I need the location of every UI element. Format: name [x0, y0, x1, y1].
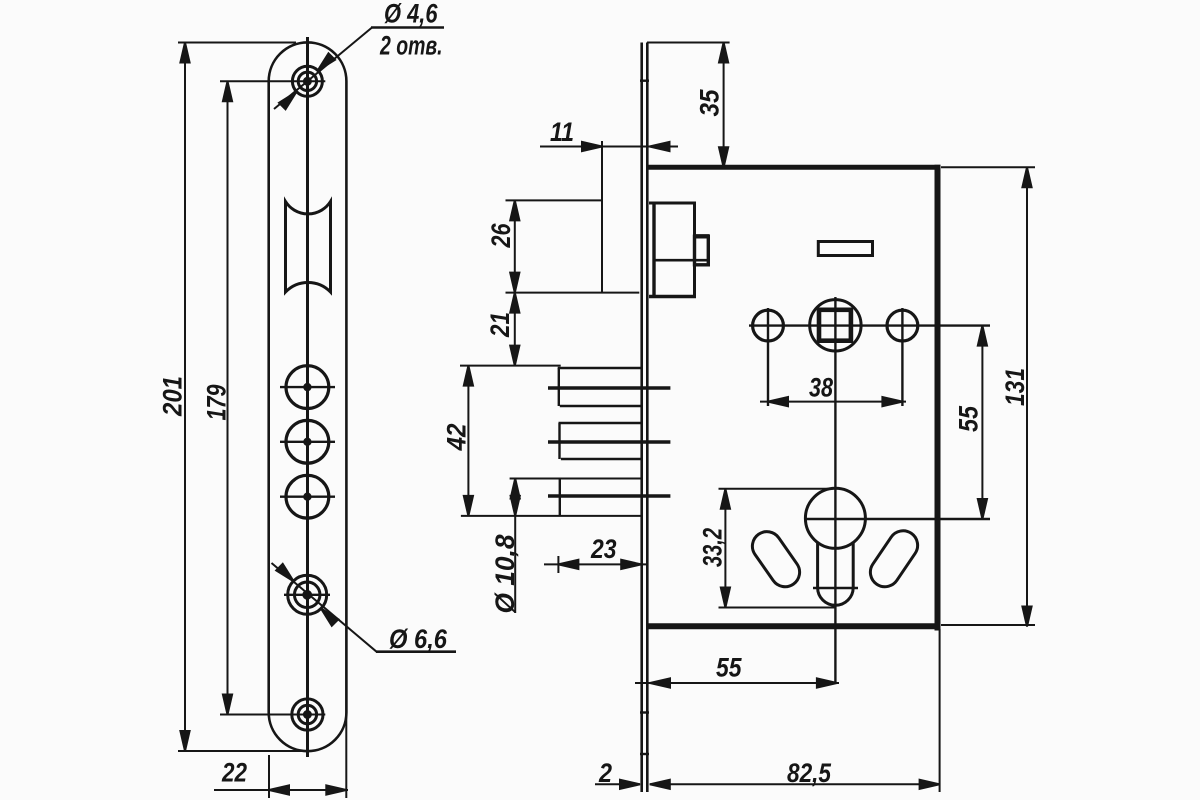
dimension 201 top extension [178, 42, 296, 44]
dimension 82.5 line [650, 783, 940, 785]
spring leaf cell 2 [559, 422, 641, 424]
plate hole 3 [286, 475, 329, 518]
dimension 179 bottom extension / hole crosshair [220, 714, 325, 716]
dimension 22 line [214, 789, 348, 791]
keyhole channel tick [813, 587, 858, 590]
dimension 55 bottom line [635, 682, 839, 684]
dimension 11 line [540, 146, 678, 148]
left fixing hole [753, 310, 784, 341]
dimension 22 left extension [268, 755, 270, 798]
dimension 201 line [184, 43, 186, 752]
spindle square [819, 310, 851, 341]
right hole vertical centerline [901, 308, 903, 406]
leader Ø6.6 [272, 563, 377, 652]
faceplate outline [269, 42, 347, 751]
case right edge [935, 165, 941, 631]
dimension 35 line [723, 43, 725, 168]
svg-text:23: 23 [590, 534, 616, 564]
leader Ø4.6 [274, 28, 372, 110]
svg-text:38: 38 [809, 373, 833, 403]
svg-text:131: 131 [1000, 368, 1030, 406]
dimension 23 extension [557, 556, 559, 573]
top screw hole (Ø4.6) [292, 66, 322, 96]
dimension 201 bottom extension [178, 750, 309, 752]
svg-text:Ø 10,8: Ø 10,8 [490, 535, 520, 614]
left oval slot [747, 526, 806, 592]
dimension 38 line [760, 401, 906, 403]
svg-text:82,5: 82,5 [787, 758, 832, 788]
svg-text:33,2: 33,2 [698, 528, 728, 567]
keyhole channel [818, 542, 854, 606]
strip tick bottom hole [640, 711, 649, 713]
dimension 131 top extension [941, 166, 1035, 168]
svg-text:55: 55 [716, 653, 742, 683]
right oval slot [865, 525, 923, 592]
svg-text:21: 21 [485, 312, 515, 338]
strip tick top hole [640, 79, 649, 81]
spring leaf cell 3 [559, 479, 561, 516]
case top edge [648, 165, 941, 170]
svg-text:26: 26 [486, 223, 516, 249]
hole Ø6.6 [288, 575, 327, 614]
dimension 10.8 line with leader [514, 479, 516, 614]
dimension 26/21 middle extension [506, 292, 640, 294]
spring leaf cell 1 [558, 367, 641, 369]
plate hole 1 [286, 366, 329, 409]
dimension 26-21 line [514, 200, 516, 365]
latch bolt head [695, 236, 709, 264]
latch cutout in faceplate [286, 202, 331, 293]
hole Ø6.6 crosshair [284, 594, 330, 596]
dimension 10.8 top extension [510, 478, 642, 480]
holes row centerline [749, 324, 990, 326]
dimension 35 extension top [647, 42, 730, 44]
svg-text:2: 2 [598, 758, 612, 788]
strip right line [646, 43, 649, 793]
plate hole 2 [286, 420, 329, 463]
faceplate centerline [306, 37, 309, 757]
spring leaf 2 [548, 440, 670, 443]
dimension 26 top extension [506, 199, 604, 201]
strip tick plate bottom [640, 753, 649, 755]
svg-text:Ø 6,6: Ø 6,6 [389, 624, 448, 654]
latch bolt bottom edge [649, 295, 696, 298]
dimension 131 line [1026, 167, 1028, 626]
slot rectangle [818, 242, 872, 256]
svg-text:201: 201 [158, 376, 188, 417]
latch bolt left edge [652, 203, 655, 297]
dimension 23 line [544, 563, 647, 565]
right fixing hole [887, 310, 918, 341]
svg-text:35: 35 [695, 89, 725, 117]
dimension 33.2 top extension [719, 488, 834, 490]
keyhole circle [805, 488, 865, 548]
dimension 55 right line [981, 326, 983, 519]
svg-text:42: 42 [442, 424, 472, 452]
case bottom edge [647, 623, 941, 629]
svg-text:11: 11 [550, 117, 574, 147]
svg-text:179: 179 [202, 385, 232, 421]
dimension 179 line [227, 81, 229, 714]
latch bolt head top thick edge [693, 234, 710, 238]
dimension 11 extension [601, 141, 603, 293]
plate hole 2 crosshair [280, 441, 335, 443]
strip left line [640, 43, 643, 793]
svg-text:Ø 4,6: Ø 4,6 [384, 0, 438, 29]
svg-text:55: 55 [954, 405, 984, 432]
dimension 33.2 bottom extension [719, 607, 837, 609]
left hole vertical centerline [767, 308, 769, 406]
dimension 42 bottom extension [461, 515, 641, 517]
dimension 22 right extension [345, 560, 347, 798]
latch bolt right edge [693, 203, 696, 297]
dimension 33.2 line [724, 489, 726, 608]
dimension 42/21 extension [460, 365, 561, 367]
svg-text:2 отв.: 2 отв. [379, 31, 442, 61]
dimension 179 top extension / hole crosshair [220, 80, 325, 82]
spring leaf 3 [548, 494, 670, 497]
spindle/keyhole vertical centerline [834, 297, 836, 683]
latch bolt parting line [654, 259, 707, 262]
dimension 42 line [467, 366, 469, 516]
dimension 2 line [595, 783, 640, 785]
spindle hole circle [810, 300, 861, 351]
latch bolt top edge [649, 202, 696, 205]
plate hole 1 crosshair [280, 386, 335, 388]
keyhole horizontal centerline [804, 518, 990, 520]
svg-text:22: 22 [221, 758, 247, 788]
dimension 82.5 right extension [939, 629, 941, 792]
plate hole 3 crosshair [280, 496, 335, 498]
spring leaf 1 [548, 386, 670, 389]
dimension 131 bottom extension [941, 624, 1035, 626]
bottom screw hole [292, 699, 323, 730]
